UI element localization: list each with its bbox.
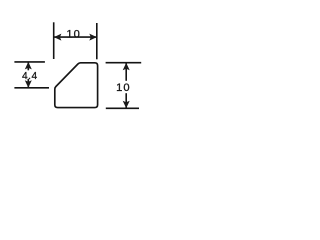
left dimension: up arrowhead bbox=[25, 62, 32, 70]
top dimension value 10 bbox=[66, 28, 80, 40]
right dimension: up arrowhead bbox=[123, 63, 130, 70]
top dimension: right arrowhead bbox=[89, 34, 97, 41]
top dimension: left extension line bbox=[53, 22, 55, 59]
left dimension value 4.4 bbox=[22, 71, 38, 82]
left dimension: top extension line bbox=[14, 61, 45, 63]
top dimension: right extension line bbox=[96, 23, 98, 59]
right dimension: top extension line bbox=[106, 62, 142, 64]
left dimension line (lower segment) bbox=[27, 79, 29, 88]
right dimension line (lower segment) bbox=[125, 93, 127, 108]
svg-text:10: 10 bbox=[66, 28, 80, 40]
svg-text:10: 10 bbox=[116, 82, 130, 94]
top dimension: left arrowhead bbox=[54, 34, 62, 41]
right dimension: bottom extension line bbox=[106, 107, 139, 109]
left dimension: down arrowhead bbox=[25, 80, 32, 88]
left dimension line (upper segment) bbox=[27, 62, 29, 70]
right dimension value 10 bbox=[116, 82, 130, 94]
right dimension line (upper segment) bbox=[125, 63, 127, 81]
left dimension: bottom extension line bbox=[14, 87, 49, 89]
top dimension line bbox=[54, 36, 96, 38]
part outline (chamfered square) bbox=[55, 63, 98, 108]
svg-text:4.4: 4.4 bbox=[22, 71, 38, 82]
right dimension: down arrowhead bbox=[123, 101, 130, 109]
